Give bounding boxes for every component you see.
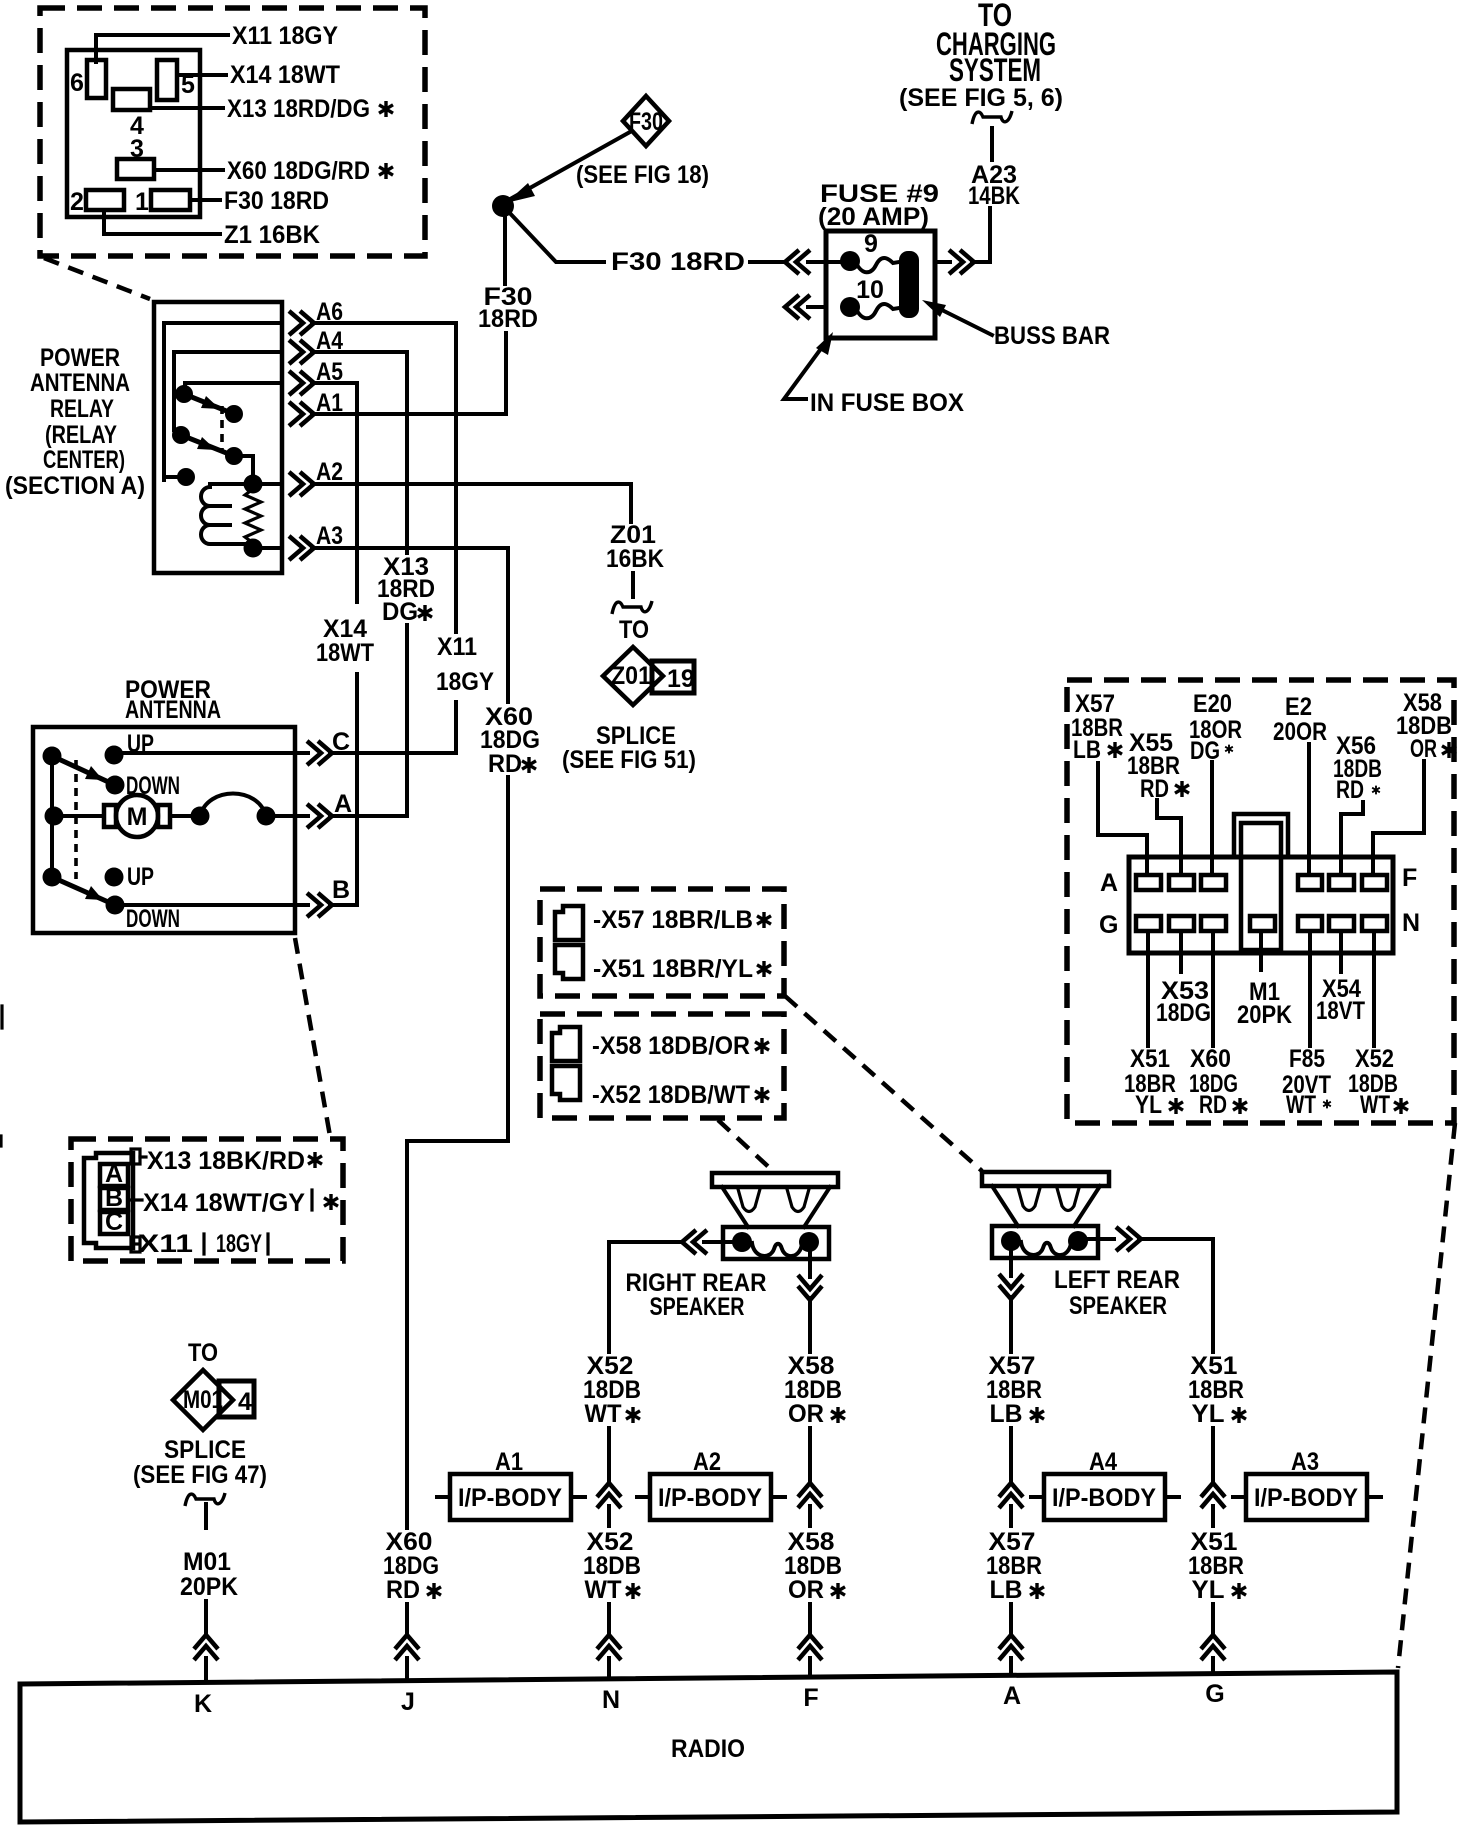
wire pin N3 to X52	[1372, 931, 1376, 1046]
wire F30 vertical to relay A1	[478, 208, 538, 414]
svg-text:RD: RD	[488, 750, 522, 778]
relay pin A6 internal wire	[164, 323, 282, 480]
svg-text:10: 10	[856, 276, 884, 304]
svg-text:I/P-BODY: I/P-BODY	[658, 1484, 762, 1512]
I/P-BODY connector A2	[637, 1448, 785, 1520]
leader wire X14	[177, 61, 340, 89]
wire X52 to radio with chevrons	[597, 1604, 621, 1679]
svg-text:2: 2	[70, 188, 84, 216]
svg-text:X52: X52	[1355, 1045, 1394, 1073]
svg-text:X60: X60	[1190, 1045, 1231, 1073]
pin A5 chevrons and label	[289, 358, 343, 395]
label X58 18DB OR (upper)	[784, 1352, 845, 1428]
svg-text:1: 1	[135, 188, 149, 216]
dashed leader antenna to connector detail	[295, 938, 330, 1136]
label -X58 18DB/OR	[592, 1032, 769, 1060]
svg-text:E20: E20	[1193, 690, 1232, 718]
connector key	[1234, 814, 1288, 950]
svg-text:DG: DG	[1190, 737, 1220, 765]
svg-text:M01: M01	[183, 1548, 231, 1576]
svg-text:YL: YL	[1192, 1400, 1225, 1428]
left speaker terminal dots	[1001, 1231, 1088, 1251]
svg-text:-X52 18DB/WT: -X52 18DB/WT	[592, 1081, 750, 1109]
label X11 18GY	[133, 1230, 268, 1258]
wire X51 from left speaker to the right	[1078, 1227, 1213, 1352]
svg-text:K: K	[194, 1690, 212, 1718]
leader wire F30	[190, 187, 329, 215]
svg-text:A: A	[1100, 869, 1118, 897]
mechanical linkage (dashed)	[220, 406, 224, 451]
wire X52 from right speaker to radio pin N	[609, 1230, 742, 1352]
connector detail box (relay connector, dashed)	[40, 8, 425, 256]
left speaker voice coil	[1021, 1242, 1071, 1255]
label X51 18BR YL (upper)	[1188, 1352, 1246, 1428]
svg-text:J: J	[401, 1688, 415, 1716]
contact node upper fixed	[175, 385, 193, 403]
svg-text:-X58 18DB/OR: -X58 18DB/OR	[592, 1032, 750, 1060]
connector body C1	[1129, 857, 1393, 953]
svg-text:X11 18GY: X11 18GY	[232, 22, 338, 50]
svg-text:N: N	[1402, 909, 1420, 937]
left rear speaker magnet bar	[982, 1172, 1109, 1186]
wire A1 to F30	[312, 412, 506, 416]
label BUSS BAR with arrow	[922, 300, 1110, 350]
node coil feed dot	[177, 468, 195, 486]
svg-text:18RD: 18RD	[478, 305, 538, 333]
svg-text:A: A	[334, 790, 352, 818]
relay coil L1	[201, 484, 253, 544]
wire X57 to radio with chevrons	[999, 1604, 1023, 1675]
label X51 18BR YL (lower)	[1188, 1528, 1246, 1604]
wire M01 lower with chevrons	[194, 1601, 218, 1681]
svg-text:14BK: 14BK	[968, 182, 1020, 210]
pin 4	[113, 89, 150, 140]
dashed leader box2 to right rear speaker	[718, 1120, 774, 1172]
pin row bottom	[1136, 916, 1387, 931]
wire E2 to pin F1	[1307, 744, 1311, 874]
svg-text:-X51 18BR/YL: -X51 18BR/YL	[593, 955, 753, 983]
pin A wire and chevrons	[266, 790, 407, 828]
svg-text:RD: RD	[386, 1576, 420, 1604]
svg-text:B: B	[332, 876, 350, 904]
radio pin F	[803, 1684, 818, 1712]
svg-text:YL: YL	[1192, 1576, 1225, 1604]
svg-text:LB: LB	[1073, 736, 1101, 764]
svg-text:X11: X11	[138, 1230, 193, 1258]
svg-text:X60 18DG/RD: X60 18DG/RD	[227, 157, 370, 185]
scan artifact marks	[1, 1006, 2, 1146]
svg-text:-X57 18BR/LB: -X57 18BR/LB	[593, 906, 753, 934]
node common top	[43, 747, 62, 766]
wire fuse pin10 stub with connector chevrons	[785, 295, 826, 319]
svg-text:WT: WT	[585, 1400, 622, 1428]
wire motor to jumper	[170, 814, 200, 818]
pin A4 chevrons and label	[289, 327, 343, 364]
svg-text:A2: A2	[316, 458, 343, 486]
leader dashed diagonal to relay	[44, 258, 150, 299]
radio pin G	[1205, 1680, 1224, 1708]
contact DOWN upper	[106, 772, 181, 800]
label X14 18WT/GY	[128, 1189, 338, 1217]
svg-text:I/P-BODY: I/P-BODY	[458, 1484, 562, 1512]
wire A3 to X60 vertical	[312, 548, 508, 702]
left rear speaker terminal box	[992, 1226, 1098, 1258]
wire X55 to pin A2	[1157, 800, 1181, 874]
svg-text:LB: LB	[990, 1400, 1023, 1428]
right speaker terminal dots	[732, 1232, 819, 1252]
svg-text:N: N	[602, 1686, 620, 1714]
svg-text:20PK: 20PK	[180, 1573, 238, 1601]
svg-text:(SEE FIG 51): (SEE FIG 51)	[562, 746, 696, 774]
label TO	[619, 616, 649, 644]
svg-text:(SECTION A): (SECTION A)	[5, 472, 145, 500]
svg-text:RD: RD	[1140, 775, 1169, 803]
label Z01 16BK	[606, 521, 664, 573]
connector body	[67, 50, 200, 217]
leader wire X13	[150, 95, 393, 123]
row label A	[1100, 869, 1118, 897]
svg-text:X13 18RD/DG: X13 18RD/DG	[227, 95, 370, 123]
contact DOWN lower	[106, 896, 181, 934]
label SPLICE (SEE FIG 51)	[562, 722, 696, 774]
svg-text:F: F	[803, 1684, 818, 1712]
label X53 18DG	[1156, 977, 1211, 1027]
mechanical linkage upper (dashed)	[74, 760, 78, 879]
connector glyph X57/X51	[555, 906, 583, 979]
svg-text:F30: F30	[629, 108, 663, 136]
wire A6 to X11 vertical	[312, 323, 456, 632]
right rear speaker terminal box	[723, 1227, 829, 1259]
node coil bottom junction	[244, 539, 263, 558]
label F85 20VT WT	[1282, 1045, 1331, 1119]
pin 2	[70, 188, 124, 216]
label POWER ANTENNA RELAY	[5, 344, 145, 500]
svg-text:M01: M01	[183, 1386, 223, 1414]
label X52 18DB WT (upper)	[583, 1352, 641, 1428]
svg-text:SYSTEM: SYSTEM	[949, 52, 1041, 88]
wire X14 lower to antenna pin B	[355, 674, 359, 905]
label E2 20OR	[1273, 693, 1327, 746]
label M1 20PK	[1237, 978, 1292, 1029]
svg-text:F30 18RD: F30 18RD	[224, 187, 329, 215]
contact UP upper	[105, 730, 155, 765]
svg-text:16BK: 16BK	[606, 545, 664, 573]
fuse box FUSE#9	[818, 180, 939, 338]
wire A4 to X13 vertical	[312, 352, 407, 553]
splice symbol M01 4	[173, 1370, 254, 1430]
wire moving contact to coil junction	[234, 456, 253, 478]
label IN FUSE BOX with arrow	[784, 332, 964, 417]
svg-text:F30 18RD: F30 18RD	[611, 248, 745, 276]
contact node upper moving	[225, 405, 243, 423]
wire pin G2 to X53	[1179, 931, 1183, 972]
relay pin A5 internal wire	[185, 383, 282, 388]
antenna common bus wire	[50, 756, 54, 877]
radio pin K	[194, 1690, 212, 1718]
label X54 18VT	[1316, 975, 1365, 1025]
switch arm upper with arrow	[52, 756, 115, 785]
svg-text:X13 18BK/RD: X13 18BK/RD	[147, 1147, 305, 1175]
inline connector detail box X57/X51 (dashed)	[540, 889, 784, 996]
relay pin A3 internal wire	[253, 546, 282, 550]
wire X57 to pin A1	[1098, 763, 1147, 874]
fuse terminal 10	[840, 276, 884, 317]
wire pin M1	[1259, 931, 1263, 970]
label E20 18OR DG	[1189, 690, 1242, 765]
svg-text:I/P-BODY: I/P-BODY	[1052, 1484, 1156, 1512]
dashed leader box1 to left rear speaker	[785, 996, 982, 1171]
svg-text:RD: RD	[1336, 776, 1364, 804]
label SPLICE (SEE FIG 47)	[133, 1436, 267, 1489]
wire pin N1 to F85	[1308, 931, 1312, 1046]
relay pin A4 internal wire	[174, 352, 282, 430]
right rear speaker magnet bar	[712, 1173, 838, 1187]
wire X11 lower to antenna pin C	[454, 702, 458, 753]
svg-text:DOWN: DOWN	[126, 905, 180, 933]
svg-text:POWER: POWER	[40, 344, 120, 372]
svg-text:(SEE FIG 18): (SEE FIG 18)	[576, 161, 709, 189]
label X56 18DB RD	[1333, 732, 1382, 804]
svg-text:(SEE FIG 47): (SEE FIG 47)	[133, 1461, 267, 1489]
svg-text:OR: OR	[788, 1576, 824, 1604]
row label G	[1099, 911, 1118, 939]
relay resistor R1	[245, 489, 261, 543]
svg-text:X14 18WT/GY: X14 18WT/GY	[143, 1189, 305, 1217]
svg-text:Z1 16BK: Z1 16BK	[224, 221, 320, 249]
pin A3 chevrons and label	[289, 522, 343, 560]
node jumper left	[191, 807, 210, 826]
svg-text:CENTER): CENTER)	[43, 446, 125, 474]
connector detail box X13/X14/X11 (dashed)	[71, 1139, 343, 1261]
pin B wire and chevrons	[115, 876, 357, 917]
svg-text:SPEAKER: SPEAKER	[650, 1293, 745, 1321]
wire X51 to radio with chevrons	[1201, 1604, 1225, 1673]
label X11 18GY	[436, 633, 494, 696]
svg-text:20OR: 20OR	[1273, 718, 1327, 746]
svg-text:TO: TO	[619, 616, 649, 644]
node jumper right	[257, 807, 276, 826]
I/P-BODY connector A3	[1233, 1448, 1381, 1520]
svg-text:BUSS BAR: BUSS BAR	[994, 322, 1110, 350]
svg-text:18WT: 18WT	[316, 639, 374, 667]
node common mid	[45, 807, 64, 826]
svg-text:SPEAKER: SPEAKER	[1069, 1292, 1167, 1320]
label X13 18RD/DG	[377, 553, 435, 626]
fuse element 9	[856, 258, 899, 272]
label LEFT REAR SPEAKER	[1054, 1266, 1180, 1320]
fuse element 10	[856, 304, 899, 318]
wire pin G1 to X51	[1146, 931, 1150, 1046]
wire X58 to radio with chevrons	[798, 1604, 822, 1677]
svg-text:SPLICE: SPLICE	[164, 1436, 246, 1464]
wire A23 14BK from fuse to charging system	[935, 111, 1020, 274]
svg-text:WT: WT	[585, 1576, 622, 1604]
leader wire X11	[96, 22, 338, 62]
label -X51 18BR/YL	[593, 955, 771, 983]
relay switch arm lower with arrow	[181, 435, 234, 456]
pin 1	[135, 188, 190, 216]
svg-text:18VT: 18VT	[1316, 997, 1365, 1025]
label X13 18BK/RD	[140, 1147, 322, 1175]
node: junction dot F30	[492, 195, 514, 217]
svg-text:4: 4	[238, 1388, 252, 1416]
label X14 18WT	[316, 615, 374, 667]
wire X60 lower with jog to radio pin J	[407, 777, 508, 1528]
left rear speaker cone	[992, 1186, 1100, 1226]
svg-text:G: G	[1099, 911, 1118, 939]
radio pin N	[602, 1686, 620, 1714]
pin B	[100, 1184, 128, 1212]
wire X58 from right speaker down	[798, 1244, 822, 1352]
svg-text:19: 19	[667, 665, 695, 693]
right rear speaker cone	[722, 1187, 830, 1227]
wire X58 mid with I/P connector chevrons	[798, 1428, 822, 1526]
switch arm lower with arrow	[52, 877, 115, 905]
svg-text:18DG: 18DG	[1156, 999, 1211, 1027]
pin A2 chevrons and label	[289, 458, 343, 496]
relay switch arm upper with arrow	[184, 394, 234, 414]
label X55 18BR RD	[1127, 729, 1189, 803]
svg-text:X14 18WT: X14 18WT	[230, 61, 340, 89]
label POWER ANTENNA	[125, 676, 221, 724]
wire pin G3 to X60	[1211, 931, 1215, 1046]
svg-text:RD: RD	[1199, 1091, 1227, 1119]
wire F30 18RD to fuse	[505, 208, 850, 276]
svg-text:(20 AMP): (20 AMP)	[818, 203, 929, 231]
I/P-BODY connector A4	[1031, 1448, 1179, 1520]
node coil top junction	[244, 475, 263, 494]
I/P-BODY connector A1	[437, 1448, 585, 1520]
label X60 18DG RD	[480, 703, 540, 778]
row label N	[1402, 909, 1420, 937]
svg-text:RADIO: RADIO	[671, 1735, 745, 1763]
label X60 18DG RD	[1189, 1045, 1247, 1119]
svg-text:9: 9	[864, 230, 878, 258]
svg-text:OR: OR	[788, 1400, 824, 1428]
svg-text:18GY: 18GY	[216, 1230, 262, 1258]
svg-text:RELAY: RELAY	[50, 395, 114, 423]
connector glyph X58/X52	[552, 1027, 580, 1100]
wire M01 20PK to radio pin K	[185, 1493, 225, 1528]
wire X56 to pin F2	[1341, 802, 1363, 874]
label X52 18DB WT (lower)	[583, 1528, 641, 1604]
pin A6 chevrons and label	[289, 298, 343, 335]
pin 6	[70, 60, 106, 98]
right speaker voice coil	[752, 1243, 802, 1256]
label TO (M01 splice)	[188, 1339, 218, 1367]
connector glyph 3-way	[84, 1149, 140, 1252]
svg-text:(SEE FIG 5, 6): (SEE FIG 5, 6)	[899, 84, 1063, 112]
inline connector detail box X58/X52 (dashed)	[540, 1014, 784, 1118]
svg-text:LB: LB	[990, 1576, 1023, 1604]
svg-text:18GY: 18GY	[436, 668, 494, 696]
dashed leader radio connector box to radio	[1398, 1123, 1455, 1668]
svg-text:X11: X11	[437, 633, 477, 661]
pin A1 chevrons and label	[289, 389, 343, 426]
wire A2 to Z01	[312, 484, 631, 522]
pin A	[100, 1160, 128, 1188]
splice symbol F30 (see fig 18)	[623, 96, 669, 146]
label -X52 18DB/WT	[592, 1081, 769, 1109]
svg-text:ANTENNA: ANTENNA	[30, 369, 130, 397]
svg-text:F85: F85	[1289, 1045, 1325, 1073]
label X57 18BR LB (lower)	[986, 1528, 1044, 1604]
svg-text:YL: YL	[1135, 1091, 1162, 1119]
svg-text:UP: UP	[127, 863, 154, 891]
svg-text:ANTENNA: ANTENNA	[125, 696, 221, 724]
wire X51 mid with I/P connector chevrons	[1201, 1428, 1225, 1526]
wire A5 to X14 vertical	[312, 383, 357, 602]
contact node lower fixed	[172, 426, 190, 444]
svg-text:E2: E2	[1285, 693, 1312, 721]
pin row top	[1136, 875, 1387, 890]
svg-text:20PK: 20PK	[1237, 1001, 1292, 1029]
svg-text:IN FUSE BOX: IN FUSE BOX	[810, 389, 964, 417]
pin C	[100, 1208, 128, 1236]
label X60 18DG RD (lower, at radio pin J)	[383, 1528, 441, 1604]
svg-text:F: F	[1402, 864, 1417, 892]
pin 5	[157, 60, 195, 100]
power antenna box	[33, 727, 295, 933]
radio connector detail box (dashed)	[1067, 680, 1454, 1123]
label X57 18BR LB	[1071, 690, 1123, 764]
svg-text:A: A	[1003, 1682, 1021, 1710]
svg-text:OR: OR	[1410, 735, 1437, 763]
leader wire X60	[154, 157, 393, 185]
wire X57 mid with I/P connector chevrons	[999, 1428, 1023, 1526]
label X58 18DB OR	[1396, 689, 1456, 763]
node common bottom	[43, 868, 62, 887]
svg-text:6: 6	[70, 69, 84, 97]
svg-text:M: M	[127, 803, 148, 831]
radio pin J	[401, 1688, 415, 1716]
wire X60 to radio with chevrons	[395, 1604, 419, 1680]
wire Z01 to splice	[612, 573, 652, 614]
radio pin A	[1003, 1682, 1021, 1710]
wire E20 to pin A3	[1210, 762, 1214, 874]
jumper arc	[200, 794, 266, 817]
svg-text:(RELAY: (RELAY	[45, 421, 117, 449]
splice symbol Z01 19	[603, 647, 695, 705]
svg-text:TO: TO	[188, 1339, 218, 1367]
motor M	[104, 795, 170, 837]
label -X57 18BR/LB	[593, 906, 771, 934]
wire X57 from left speaker down	[999, 1243, 1023, 1352]
row label F	[1402, 864, 1417, 892]
relay pin A2 internal wire	[253, 482, 282, 486]
wire common to motor	[54, 814, 104, 818]
label TO CHARGING SYSTEM	[899, 0, 1063, 112]
label X57 18BR LB (upper)	[986, 1352, 1044, 1428]
leader wire to F30 splice with arrowhead	[506, 132, 630, 203]
pin 3	[117, 135, 154, 179]
contact UP lower	[105, 863, 155, 891]
radio box	[20, 1672, 1397, 1822]
label M01 20PK	[180, 1548, 238, 1601]
label RIGHT REAR SPEAKER	[626, 1269, 767, 1321]
svg-text:A3: A3	[316, 522, 343, 550]
label X58 18DB OR (lower)	[784, 1528, 845, 1604]
svg-text:G: G	[1205, 1680, 1224, 1708]
buss bar	[899, 251, 919, 318]
svg-text:Z01: Z01	[611, 662, 651, 690]
wire pin N2 to X54	[1339, 931, 1343, 972]
svg-text:WT: WT	[1286, 1091, 1316, 1119]
wire X13 lower to antenna pin A	[405, 625, 409, 816]
svg-text:I/P-BODY: I/P-BODY	[1254, 1484, 1358, 1512]
svg-text:X51: X51	[1130, 1045, 1170, 1073]
svg-text:LEFT REAR: LEFT REAR	[1054, 1266, 1180, 1294]
